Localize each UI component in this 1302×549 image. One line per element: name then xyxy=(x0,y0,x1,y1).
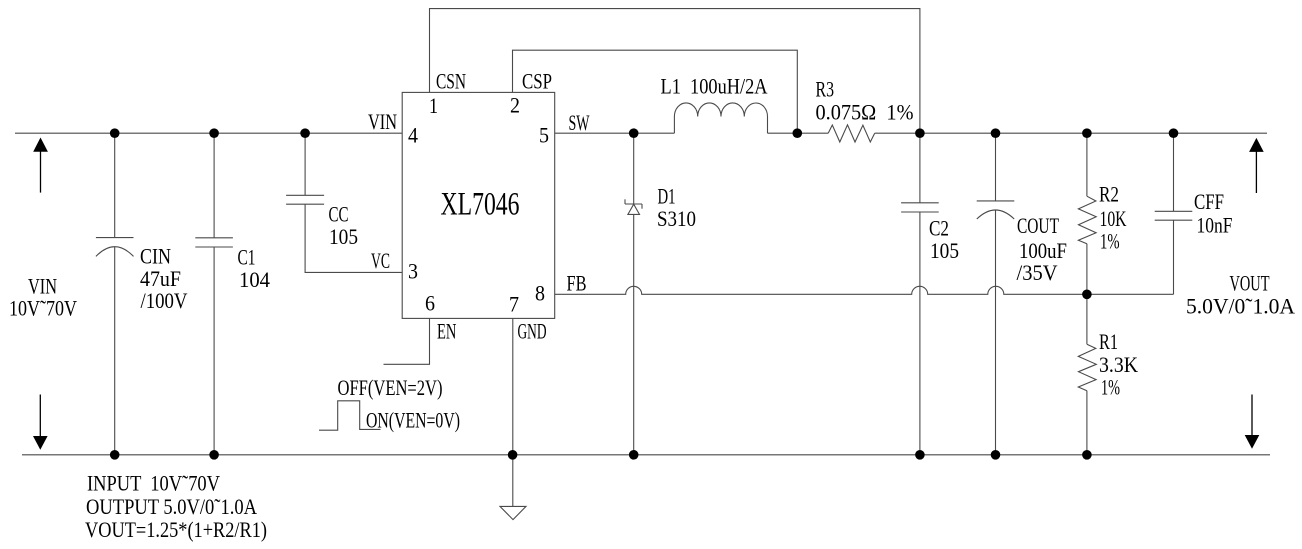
svg-text:C2: C2 xyxy=(929,216,949,241)
op-amp U1 XL7046 IC body xyxy=(402,92,555,318)
pin number 7 xyxy=(509,292,519,317)
wire GND stub pin7 down through bottom rail xyxy=(512,318,514,506)
svg-text:VOUT=1.25*(1+R2/R1): VOUT=1.25*(1+R2/R1) xyxy=(85,517,267,542)
pin CSN label xyxy=(436,69,466,94)
svg-text:GND: GND xyxy=(518,319,547,344)
pin number 6 xyxy=(425,291,435,316)
svg-text:D1: D1 xyxy=(658,183,676,208)
capacitor CC xyxy=(286,133,324,204)
junction dots bottom rail xyxy=(110,450,1092,460)
svg-text:EN: EN xyxy=(437,319,456,344)
pin VC label xyxy=(371,248,390,273)
svg-text:105: 105 xyxy=(930,238,959,263)
svg-text:1%: 1% xyxy=(1101,374,1120,399)
node XL7046 label xyxy=(441,187,520,223)
capacitor C2 xyxy=(901,133,939,455)
svg-text:ON(VEN=0V): ON(VEN=0V) xyxy=(366,408,460,433)
svg-text:CFF: CFF xyxy=(1194,189,1224,214)
EN pulse waveform xyxy=(319,401,381,430)
pin EN label xyxy=(437,319,456,344)
svg-text:4: 4 xyxy=(408,123,418,148)
svg-text:FB: FB xyxy=(567,270,587,295)
svg-text:7: 7 xyxy=(509,292,519,317)
svg-text:R2: R2 xyxy=(1099,182,1119,207)
svg-text:5.0V/0˜1.0A: 5.0V/0˜1.0A xyxy=(1186,294,1295,319)
svg-text:CIN: CIN xyxy=(140,244,171,269)
arrow input up xyxy=(33,138,48,193)
node CC value label xyxy=(329,202,359,250)
resistor R1 xyxy=(1078,294,1096,455)
arrow input down xyxy=(33,395,48,450)
pin number 3 xyxy=(408,259,418,284)
svg-text:105: 105 xyxy=(329,224,358,249)
node C1 value label xyxy=(238,245,271,293)
pin SW label xyxy=(569,110,590,135)
svg-text:VIN: VIN xyxy=(368,109,397,134)
pin CSP label xyxy=(522,69,552,94)
wire GND bottom rail xyxy=(22,454,1270,456)
junction dot FB node xyxy=(1082,290,1092,300)
node D1 value label xyxy=(657,183,696,231)
pin GND label xyxy=(518,319,547,344)
wire L1 to R3 xyxy=(768,132,829,134)
svg-text:OFF(VEN=2V): OFF(VEN=2V) xyxy=(338,375,443,400)
svg-text:COUT: COUT xyxy=(1017,213,1059,238)
svg-text:R1: R1 xyxy=(1099,329,1118,354)
pin FB label xyxy=(567,270,587,295)
capacitor COUT (polarized) xyxy=(977,133,1015,455)
svg-text:104: 104 xyxy=(239,267,270,292)
svg-text:OUTPUT 5.0V/0˜1.0A: OUTPUT 5.0V/0˜1.0A xyxy=(86,494,257,519)
node OUTPUT spec text xyxy=(86,494,257,519)
pin number 1 xyxy=(429,93,438,118)
node VOUT formula text xyxy=(85,517,267,542)
wire VC net CC bottom to pin3 xyxy=(305,204,402,272)
pin number 2 xyxy=(510,92,520,117)
arrow output up xyxy=(1249,138,1264,193)
svg-text:5: 5 xyxy=(539,123,549,148)
wire VOUT rail from R3 to right end xyxy=(875,132,1267,134)
svg-text:3: 3 xyxy=(408,259,418,284)
node CFF value label xyxy=(1194,189,1233,238)
svg-text:VC: VC xyxy=(371,248,390,273)
node VOUT label right xyxy=(1186,270,1295,318)
wire CSP net pin2 up across down to rail xyxy=(513,50,798,133)
svg-text:CSP: CSP xyxy=(522,69,552,94)
inductor L1 xyxy=(674,103,767,133)
node R2 value label xyxy=(1099,182,1127,254)
svg-text:CC: CC xyxy=(329,202,349,227)
pin number 5 xyxy=(539,123,549,148)
pin number 4 xyxy=(408,123,418,148)
node COUT value label xyxy=(1017,213,1068,285)
ground symbol xyxy=(500,506,526,519)
wire CSN net pin1 up across top down to VOUT rail xyxy=(430,9,920,134)
junction dots top rail xyxy=(110,128,1178,138)
node VIN label left xyxy=(9,274,77,321)
node EN OFF annotation xyxy=(338,375,443,400)
node INPUT spec text xyxy=(87,471,220,496)
node R1 value label xyxy=(1099,329,1138,399)
capacitor C1 xyxy=(195,133,233,455)
wire FB line with hops over D1, C2, COUT wires xyxy=(555,286,1174,294)
svg-text:0.075Ω 1%: 0.075Ω 1% xyxy=(816,100,914,125)
wire EN stub pin6 xyxy=(384,318,430,364)
svg-text:10nF: 10nF xyxy=(1197,213,1233,238)
node EN ON annotation xyxy=(366,408,460,433)
svg-text:/100V: /100V xyxy=(141,288,188,313)
capacitor CFF xyxy=(1155,133,1193,294)
svg-text:XL7046: XL7046 xyxy=(441,187,520,223)
pin number 8 xyxy=(535,281,545,306)
svg-text:S310: S310 xyxy=(657,206,696,231)
svg-text:8: 8 xyxy=(535,281,545,306)
svg-text:1%: 1% xyxy=(1100,229,1120,254)
svg-text:R3: R3 xyxy=(816,76,835,101)
svg-text:C1: C1 xyxy=(238,245,256,270)
resistor R2 xyxy=(1078,133,1096,294)
svg-text:3.3K: 3.3K xyxy=(1099,352,1138,377)
svg-text:1: 1 xyxy=(429,93,438,118)
svg-text:CSN: CSN xyxy=(436,69,466,94)
svg-text:6: 6 xyxy=(425,291,435,316)
node R3 value label xyxy=(816,76,914,124)
diode D1 S310 schottky xyxy=(625,133,642,455)
svg-text:10K: 10K xyxy=(1100,206,1127,231)
svg-text:10V˜70V: 10V˜70V xyxy=(9,296,77,321)
svg-text:SW: SW xyxy=(569,110,590,135)
node CIN value label xyxy=(140,244,188,314)
svg-text:INPUT 10V˜70V: INPUT 10V˜70V xyxy=(87,471,220,496)
pin VIN label xyxy=(368,109,397,134)
wire SW rail pin5 to L1 xyxy=(555,132,675,134)
capacitor CIN (polarized) xyxy=(96,133,134,455)
svg-text:VOUT: VOUT xyxy=(1230,270,1270,295)
svg-text:/35V: /35V xyxy=(1017,260,1058,285)
svg-text:2: 2 xyxy=(510,92,520,117)
wire VIN top rail left segment xyxy=(15,132,402,134)
resistor R3 zigzag xyxy=(828,125,875,142)
node L1 value label xyxy=(661,73,768,98)
node C2 value label xyxy=(929,216,959,264)
arrow output down xyxy=(1245,395,1260,449)
svg-text:L1 100uH/2A: L1 100uH/2A xyxy=(661,73,768,98)
